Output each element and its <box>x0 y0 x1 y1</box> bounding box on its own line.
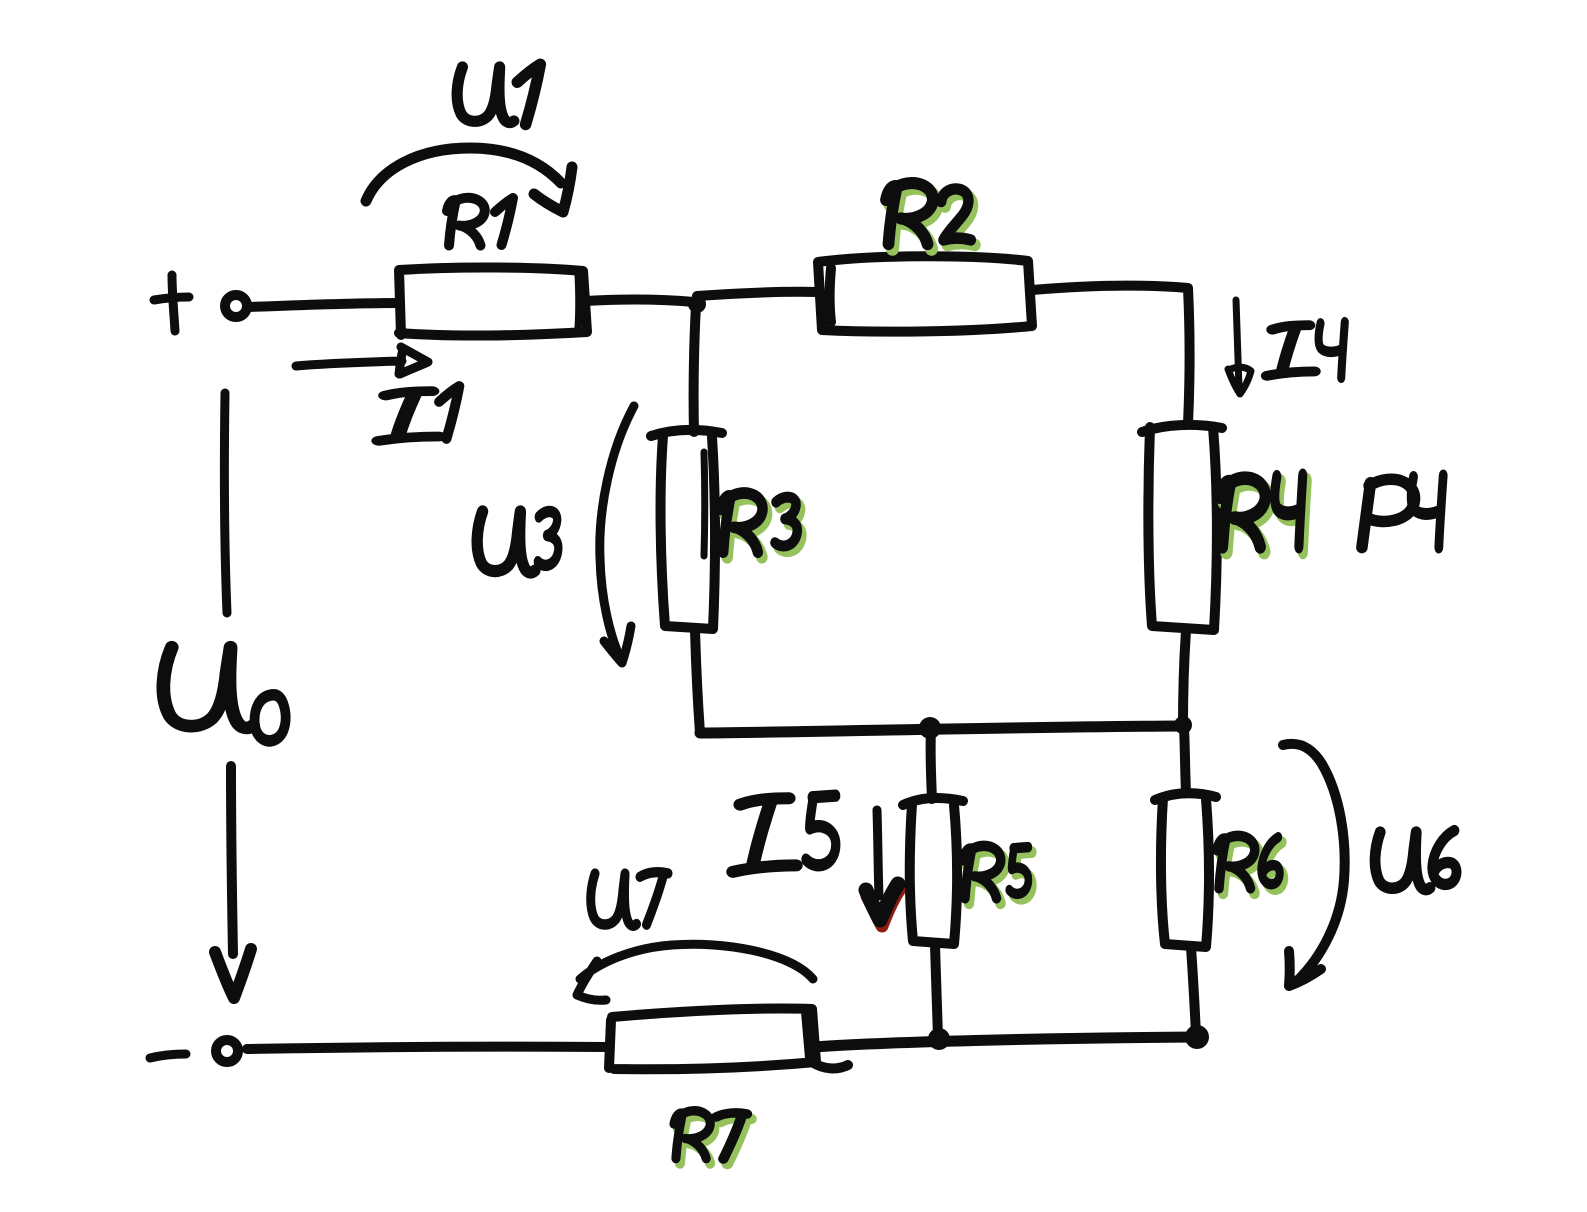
minus terminal symbol <box>150 1054 186 1058</box>
wire from R4 down to right junction <box>1183 631 1186 724</box>
voltage arc U6 <box>1283 744 1345 986</box>
wire from - terminal to R7 <box>247 1047 608 1049</box>
label R1 <box>447 198 513 246</box>
current arrow I1 <box>296 347 428 374</box>
current arrow I4 <box>1228 300 1251 394</box>
voltage arc U3 <box>600 406 634 663</box>
wire from R1 to node A <box>585 300 694 302</box>
voltage arc U7 <box>577 944 813 1000</box>
resistor R4 <box>1142 425 1222 630</box>
resistor R3 <box>651 430 722 629</box>
label R3 green shadow <box>725 498 801 557</box>
label I5 <box>733 796 836 872</box>
label R4 <box>1220 475 1303 546</box>
node A junction dot <box>688 295 706 313</box>
label R2 <box>886 183 971 244</box>
resistor R2 <box>818 256 1032 331</box>
right junction dot <box>1174 716 1192 734</box>
voltage arc U1 <box>366 148 572 212</box>
label R7 green shadow <box>678 1116 751 1164</box>
resistor R6 <box>1155 793 1216 947</box>
voltage arrow U0 lower shaft <box>231 766 233 954</box>
label I1 <box>379 386 459 441</box>
label U1 <box>457 64 540 124</box>
mid node dot <box>919 717 941 739</box>
label R7 <box>674 1111 747 1159</box>
I5 arrowhead <box>866 884 898 920</box>
middle horizontal wire <box>700 726 1183 733</box>
label U6 <box>1375 831 1456 890</box>
bottom-right node dot <box>1185 1025 1209 1049</box>
resistor R1 <box>399 267 587 335</box>
minus terminal circle <box>216 1040 238 1062</box>
wire from node A to R2 <box>697 292 818 296</box>
label I4 <box>1267 322 1345 378</box>
resistor R1 inner right edge <box>575 275 583 327</box>
label U7 <box>591 872 668 926</box>
plus terminal circle <box>225 295 247 317</box>
label P4 <box>1362 476 1443 548</box>
wire from R3 bottom to mid wire <box>695 630 700 733</box>
label R2 green shadow <box>890 188 975 249</box>
bottom node dot <box>928 1028 950 1050</box>
current arrow I5 <box>877 810 879 896</box>
voltage arrow U0 arrowhead <box>215 949 251 998</box>
wire from R2 to top-right corner and down to R4 <box>1032 286 1190 424</box>
wire from R5 bottom to bottom node <box>935 945 938 1037</box>
voltage line U0 upper <box>224 393 227 613</box>
label R3 <box>721 493 797 552</box>
label R6 <box>1217 836 1280 888</box>
bottom wire from R7 to bottom-right node <box>814 1037 1196 1047</box>
label R6 green shadow <box>1221 841 1284 893</box>
label U0 <box>163 647 285 741</box>
wire from node A down to R3 <box>694 306 696 432</box>
label U3 <box>477 511 558 572</box>
plus terminal symbol <box>154 275 189 331</box>
wire from + terminal to R1 <box>249 303 397 307</box>
label R5 green shadow <box>967 851 1032 903</box>
resistor R3 inner right edge <box>701 452 709 556</box>
wire from mid node down to R5 <box>931 729 932 799</box>
label R4 green shadow <box>1224 480 1307 551</box>
label R5 <box>963 846 1028 898</box>
wire from right junction down to R6 <box>1184 727 1186 793</box>
I5 arrowhead red shadow <box>867 889 900 926</box>
resistor R5 <box>903 798 963 944</box>
wire from R6 bottom to bottom-right node <box>1191 947 1196 1036</box>
resistor R7 <box>609 1008 848 1069</box>
